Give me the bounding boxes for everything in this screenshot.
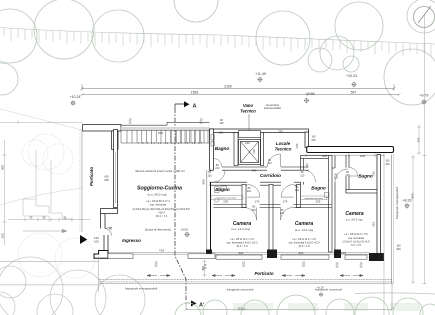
bagnoB west wall upper w door xyxy=(301,159,304,185)
site path curves left xyxy=(0,109,83,205)
svg-text:Bagno: Bagno xyxy=(311,185,326,190)
vano tecnico leader xyxy=(248,114,250,131)
right dim lines xyxy=(384,14,427,315)
svg-text:Porticato: Porticato xyxy=(89,167,94,186)
svg-text:140: 140 xyxy=(252,149,256,154)
svg-text:1593: 1593 xyxy=(191,90,199,94)
svg-text:(2.20x2.00)+(1.40x2.60)+(4.20x: (2.20x2.00)+(1.40x2.60)+(4.20x0.60)+(2.2… xyxy=(132,207,189,211)
svg-text:Bagno: Bagno xyxy=(358,174,373,179)
wall bagno-up / shaft xyxy=(234,133,238,166)
section arrow A top xyxy=(184,101,190,107)
trees bottom-right row xyxy=(175,293,435,315)
svg-text:210: 210 xyxy=(334,177,339,180)
shaft with X xyxy=(239,140,261,165)
entry door arc xyxy=(105,227,112,236)
svg-text:170: 170 xyxy=(417,137,421,142)
svg-text:+9.19: +9.19 xyxy=(316,285,324,289)
porticato east edge xyxy=(391,155,393,284)
svg-text:215: 215 xyxy=(300,175,305,178)
svg-text:Soggiorno-Cucina: Soggiorno-Cucina xyxy=(137,185,182,191)
svg-text:Quota di riferimento: Quota di riferimento xyxy=(145,227,172,231)
svg-text:210: 210 xyxy=(372,171,376,176)
jog wall vertical with entry door xyxy=(101,214,109,251)
door disimpegno right arc xyxy=(281,185,294,198)
svg-text:423: 423 xyxy=(372,222,376,227)
svg-text:Vano: Vano xyxy=(243,103,254,108)
svg-text:Locale: Locale xyxy=(276,141,291,146)
svg-text:+10.24: +10.24 xyxy=(69,95,80,99)
party wall center xyxy=(269,185,273,253)
site path arrow xyxy=(23,229,67,232)
door locale tecnico arc xyxy=(268,154,281,167)
porticato south frangisole band xyxy=(99,280,393,282)
svg-text:+9.86: +9.86 xyxy=(305,92,314,96)
entrance arrow xyxy=(80,235,87,244)
bottom dim line 2010 xyxy=(185,284,394,312)
svg-text:frangisole scorrevoli: frangisole scorrevoli xyxy=(227,288,254,292)
door camera2 arc xyxy=(281,208,294,221)
tiny stacked dims below south wall xyxy=(155,261,363,270)
porticato west edge xyxy=(81,130,83,233)
svg-text:Porticato: Porticato xyxy=(254,271,273,276)
tiny stacked dims above north wall xyxy=(129,119,402,252)
svg-text:940: 940 xyxy=(252,168,257,172)
svg-text:=20.4: =20.4 xyxy=(158,210,165,214)
camera2 east wall xyxy=(329,156,333,253)
section arrow A' bottom xyxy=(191,300,197,306)
svg-text:Tecnico: Tecnico xyxy=(275,147,292,152)
svg-text:210: 210 xyxy=(252,209,257,212)
svg-text:940: 940 xyxy=(158,131,163,135)
svg-text:frangisole sovrapponibili: frangisole sovrapponibili xyxy=(395,187,399,220)
jog wall horizontal xyxy=(101,209,118,214)
spine wall west (soggiorno/east wing) xyxy=(207,170,211,252)
svg-text:210: 210 xyxy=(295,189,300,192)
door bagno-up arc xyxy=(214,159,223,168)
trees left cluster (dotted) xyxy=(18,134,95,278)
SE corner block xyxy=(369,253,384,261)
svg-text:100: 100 xyxy=(219,122,224,125)
north arrow circle top right xyxy=(414,6,435,28)
svg-text:240: 240 xyxy=(295,143,299,148)
svg-text:r.a.i. 1/8 di 56.3 =7.4: r.a.i. 1/8 di 56.3 =7.4 xyxy=(146,199,170,203)
svg-text:s.u. 20.3 mq: s.u. 20.3 mq xyxy=(346,217,363,221)
svg-text:880: 880 xyxy=(202,179,206,184)
sliding arrows xyxy=(147,274,363,276)
dim 400 below building xyxy=(203,260,207,278)
svg-text:sup. finestrata: sup. finestrata xyxy=(348,237,364,240)
bagno3 south wall xyxy=(346,190,378,194)
svg-text:6.9 > 2.5: 6.9 > 2.5 xyxy=(351,244,361,247)
svg-text:174: 174 xyxy=(283,200,288,204)
svg-text:200: 200 xyxy=(311,139,316,142)
NE beam wall xyxy=(307,147,394,153)
stair gray band xyxy=(121,127,210,130)
svg-text:(s.u. 59.0 mq): (s.u. 59.0 mq) xyxy=(147,193,166,197)
bagno3 west wall with door xyxy=(346,155,349,193)
stair xyxy=(121,130,210,143)
wall shaft / locale tecnico xyxy=(261,133,264,166)
north wall west wing xyxy=(83,125,122,132)
svg-text:altezza ambienti interni netta: altezza ambienti interni netta = 300 cm xyxy=(135,169,185,173)
svg-text:318: 318 xyxy=(341,251,346,255)
svg-text:Bagno: Bagno xyxy=(215,187,230,192)
slope hatch band top xyxy=(0,28,435,45)
svg-text:Camera: Camera xyxy=(295,221,314,227)
svg-text:Camera: Camera xyxy=(345,211,364,217)
svg-text:235: 235 xyxy=(223,200,228,204)
svg-text:+10.23: +10.23 xyxy=(346,74,357,78)
svg-text:210: 210 xyxy=(267,162,272,165)
pier west xyxy=(112,131,119,149)
south wall: glazing line xyxy=(108,253,369,255)
svg-text:captazione meccanica: captazione meccanica xyxy=(218,197,238,200)
svg-text:Tecnico: Tecnico xyxy=(240,109,256,114)
svg-text:sup. finestrata: sup. finestrata xyxy=(150,203,167,207)
corridor north wall xyxy=(222,167,309,170)
fixtures bagno B xyxy=(325,193,330,198)
bagnoB west wall xyxy=(297,185,301,208)
svg-text:200: 200 xyxy=(396,248,401,251)
dimension line 1593 / 597 xyxy=(81,93,401,96)
svg-text:600: 600 xyxy=(1,165,5,170)
svg-text:300: 300 xyxy=(1,233,5,238)
vano tecnico niche xyxy=(239,131,261,138)
svg-text:10.2 > 1.8: 10.2 > 1.8 xyxy=(236,245,248,248)
svg-text:210: 210 xyxy=(208,175,213,178)
upper block west wall xyxy=(210,129,214,170)
svg-text:235: 235 xyxy=(278,130,283,134)
svg-text:176: 176 xyxy=(255,200,260,204)
svg-text:210: 210 xyxy=(280,212,285,215)
svg-text:frangisole sovrapponibili: frangisole sovrapponibili xyxy=(125,287,158,291)
svg-text:308: 308 xyxy=(322,154,327,158)
wall under bagni (south of service band) xyxy=(214,205,332,208)
corridor south wall xyxy=(210,182,301,185)
svg-text:140: 140 xyxy=(245,141,250,145)
svg-text:85: 85 xyxy=(109,226,113,230)
svg-text:A: A xyxy=(193,103,197,109)
svg-text:421: 421 xyxy=(298,251,303,255)
south wall piers xyxy=(206,250,212,259)
svg-text:Corridoio: Corridoio xyxy=(260,173,281,178)
svg-text:860: 860 xyxy=(411,193,415,198)
fixtures bagno upper xyxy=(211,135,215,147)
svg-text:2190: 2190 xyxy=(224,84,232,88)
left horizontal dimension line xyxy=(8,218,90,222)
svg-text:+9.79: +9.79 xyxy=(419,93,428,97)
svg-text:421: 421 xyxy=(238,251,243,255)
svg-text:inaccessibile): inaccessibile) xyxy=(264,106,281,110)
hedge ticks bottom xyxy=(234,303,419,311)
upper block north wall xyxy=(210,129,309,133)
svg-text:Bagno: Bagno xyxy=(215,146,230,151)
tiny door dims xyxy=(208,159,351,215)
bagnoA east wall xyxy=(242,185,246,208)
svg-text:(2.0x0.9 +(1.0x2.0) =6.9: (2.0x0.9 +(1.0x2.0) =6.9 xyxy=(343,240,370,243)
trees top row xyxy=(0,0,435,105)
door camera1 arc xyxy=(244,208,257,221)
site lines left of porticato xyxy=(0,257,99,293)
svg-text:7 8 9 10 11 12 13 14 15 16 17: 7 8 9 10 11 12 13 14 15 16 17 xyxy=(138,143,203,145)
svg-text:Ingresso: Ingresso xyxy=(122,238,141,243)
svg-text:20.4 > 7.4: 20.4 > 7.4 xyxy=(156,214,168,218)
svg-text:200: 200 xyxy=(385,163,390,166)
svg-text:205: 205 xyxy=(360,154,365,158)
svg-text:(s.u. 14.2 mq): (s.u. 14.2 mq) xyxy=(295,228,314,232)
svg-text:+0.00: +0.00 xyxy=(180,227,188,231)
svg-text:captazione meccanica: captazione meccanica xyxy=(304,197,324,200)
site steps left xyxy=(23,150,72,222)
upper block east wall xyxy=(305,132,309,148)
svg-text:r.a.i. 1/8 di 20.3 = 2.5: r.a.i. 1/8 di 20.3 = 2.5 xyxy=(344,233,368,236)
trees bottom-left xyxy=(0,257,145,315)
stair top line stepped xyxy=(121,122,210,125)
SW corner step block xyxy=(94,251,108,259)
svg-text:400: 400 xyxy=(201,266,205,271)
svg-text:160: 160 xyxy=(218,131,223,135)
svg-text:(s.u. 14.2 mq): (s.u. 14.2 mq) xyxy=(231,227,250,231)
west wall soggiorno xyxy=(114,130,118,208)
svg-text:+11.49: +11.49 xyxy=(255,72,266,76)
bagnoB north wall xyxy=(301,156,332,159)
svg-text:597: 597 xyxy=(351,90,357,94)
svg-text:210: 210 xyxy=(345,174,350,177)
fixtures bagno A xyxy=(214,186,226,202)
svg-text:235: 235 xyxy=(316,200,321,204)
svg-text:210: 210 xyxy=(215,167,220,170)
south sills xyxy=(108,254,367,259)
top dimension line 2190 xyxy=(81,84,396,91)
door disimpegno left arc xyxy=(247,185,260,198)
camera3 west wall with door xyxy=(332,156,335,253)
svg-text:210: 210 xyxy=(247,190,252,193)
section line A-A xyxy=(175,108,186,300)
svg-text:734: 734 xyxy=(159,249,164,253)
svg-text:100: 100 xyxy=(94,239,99,243)
left site dimension line vertical with 600/300 xyxy=(3,140,7,245)
dim line under beam xyxy=(306,153,384,157)
east wall xyxy=(377,155,381,257)
svg-text:300: 300 xyxy=(104,178,109,182)
svg-text:10.9 > 1.8: 10.9 > 1.8 xyxy=(298,245,310,248)
